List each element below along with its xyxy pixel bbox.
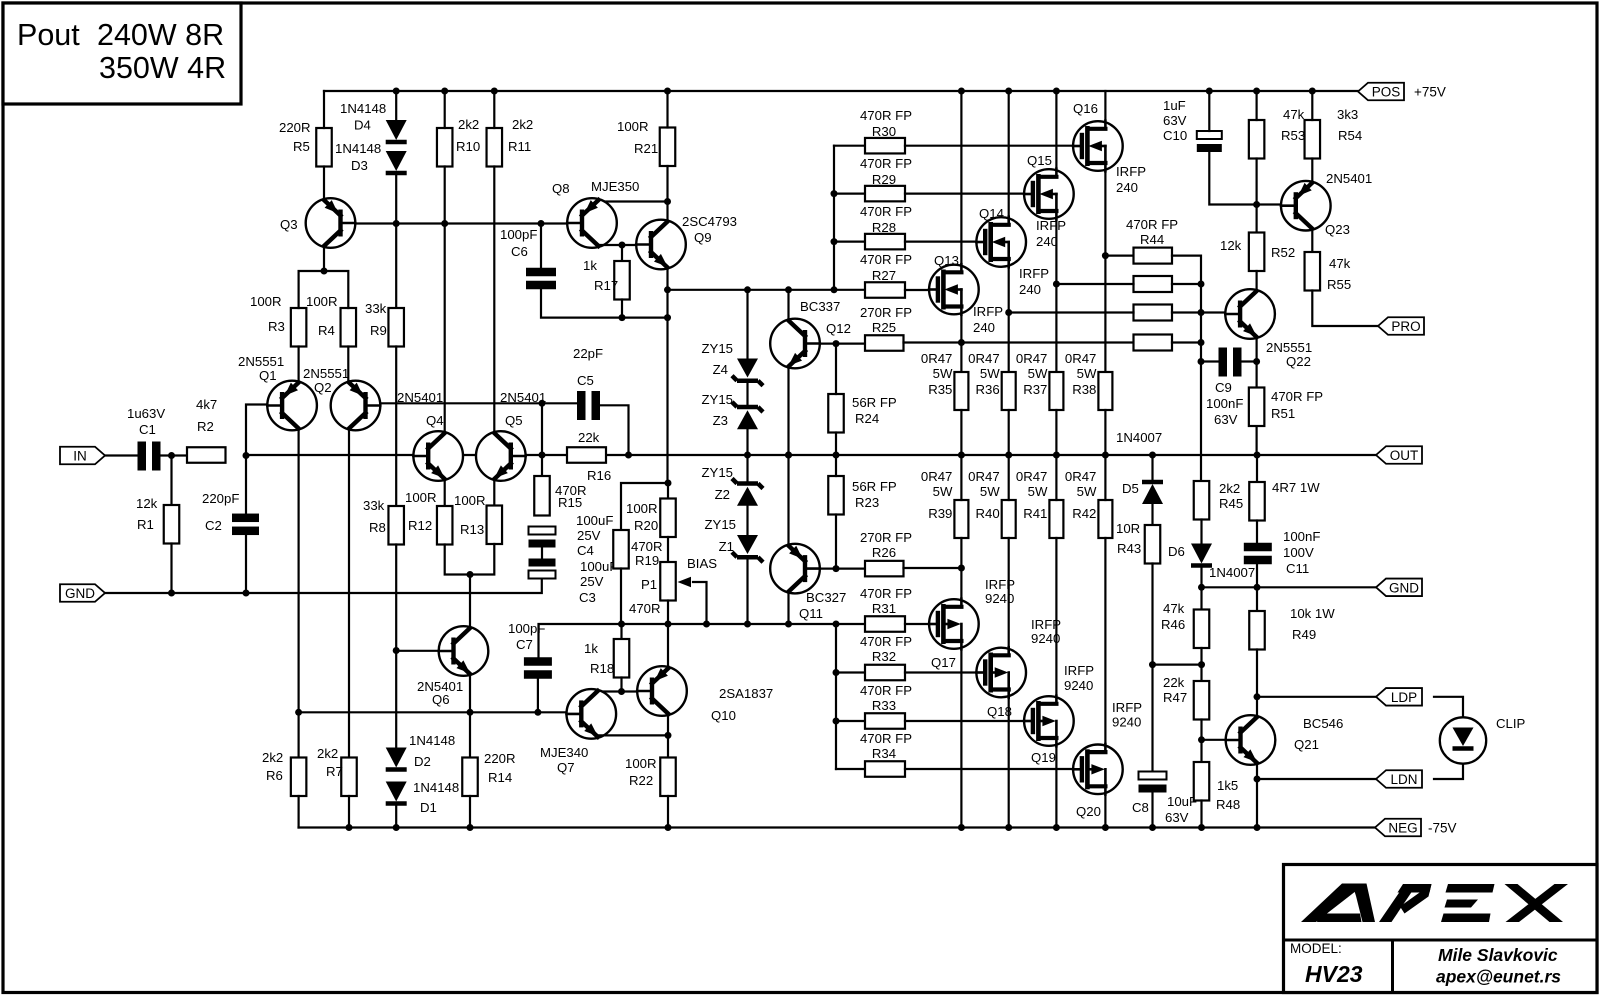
svg-text:HV23: HV23	[1305, 961, 1363, 987]
wire R21 top	[666, 91, 668, 128]
wire R38 bottom to OUT rail	[1104, 410, 1106, 455]
diode D3 1N4148	[386, 151, 407, 171]
wire R23 bottom to Q11 base	[835, 515, 837, 569]
transistor Q16 IRFP240	[1073, 121, 1123, 171]
svg-text:33k: 33k	[365, 301, 387, 316]
wire R50 to C11	[1256, 521, 1258, 545]
wire R33 to Q19 gate	[905, 720, 1027, 722]
node Q15drain-rail junction	[1053, 88, 1060, 95]
wire R29 left lead	[834, 193, 865, 195]
wire R21 to Q9 collector node	[666, 166, 668, 220]
svg-text:5W: 5W	[980, 366, 1000, 381]
wire R43 bottom to node	[1151, 564, 1153, 665]
svg-text:Q7: Q7	[557, 760, 575, 775]
node Q6base-chain junction	[393, 647, 400, 654]
node R2 output junction	[243, 452, 250, 459]
svg-text:PRO: PRO	[1391, 319, 1420, 334]
svg-text:63V: 63V	[1214, 412, 1238, 427]
svg-text:R40: R40	[975, 506, 999, 521]
resistor R28 470R FP	[865, 234, 905, 250]
svg-text:C11: C11	[1286, 561, 1309, 576]
svg-text:R6: R6	[266, 768, 283, 783]
svg-text:D2: D2	[414, 754, 431, 769]
wire Q19 drain down	[1055, 746, 1057, 828]
wire Q14 source down	[1008, 267, 1010, 373]
svg-text:R13: R13	[460, 522, 484, 537]
wire R31-R34 common vertical	[835, 624, 837, 769]
wire Q21 emitter down	[1256, 764, 1258, 828]
svg-text:47k: 47k	[1283, 107, 1305, 122]
svg-text:0R47: 0R47	[968, 351, 1000, 366]
transistor Q23 2N5401	[1281, 181, 1331, 231]
svg-text:ZY15: ZY15	[704, 517, 736, 532]
wire Q3 base to diode chain and Q8 base	[356, 222, 444, 224]
wire chain to R9	[395, 224, 397, 309]
wire R35 bottom to OUT rail	[960, 410, 962, 455]
node Q20-rail junction	[1102, 824, 1109, 831]
node R53-C10 junction	[1253, 201, 1260, 208]
node Q11base junction	[833, 565, 840, 572]
node Q6-emitter junction	[467, 709, 474, 716]
wire R22 bottom	[667, 796, 669, 828]
svg-text:R49: R49	[1292, 627, 1316, 642]
resistor R30 470R FP	[865, 138, 905, 154]
svg-text:100R: 100R	[617, 119, 649, 134]
svg-text:IN: IN	[73, 449, 87, 464]
svg-text:GND: GND	[65, 586, 95, 601]
resistor R32 470R FP	[865, 665, 905, 681]
wire LDP	[1257, 696, 1376, 698]
svg-text:Q23: Q23	[1325, 222, 1350, 237]
wire R54 top	[1311, 91, 1313, 120]
node C7 junction	[534, 709, 541, 716]
svg-text:1k5: 1k5	[1217, 778, 1238, 793]
svg-text:Q1: Q1	[259, 368, 277, 383]
node R44c junction	[1198, 309, 1205, 316]
wire R11 top	[493, 91, 495, 128]
wire R49 top	[1256, 587, 1258, 611]
svg-text:D6: D6	[1168, 544, 1185, 559]
resistor R40 0R47 5W	[1002, 500, 1016, 538]
node C8-rail junction	[1149, 824, 1156, 831]
node R31 junction	[833, 621, 840, 628]
svg-text:100pF: 100pF	[500, 227, 537, 242]
svg-text:C3: C3	[579, 590, 596, 605]
svg-text:0R47: 0R47	[1016, 351, 1048, 366]
svg-text:350W 4R: 350W 4R	[99, 51, 226, 85]
wire Q8 emitter wire	[599, 200, 668, 202]
svg-text:Q22: Q22	[1286, 354, 1311, 369]
node R1-GND junction	[168, 590, 175, 597]
svg-text:MODEL:: MODEL:	[1290, 941, 1342, 956]
svg-text:Q12: Q12	[826, 321, 851, 336]
wire P1 bottom to BIAS	[667, 601, 669, 625]
wire Q21 base wire	[1202, 739, 1226, 741]
svg-text:Q15: Q15	[1027, 153, 1052, 168]
wire Q20 drain down	[1104, 794, 1106, 828]
svg-text:C6: C6	[511, 244, 528, 259]
node R54-rail junction	[1309, 88, 1316, 95]
wire R46 top	[1200, 587, 1202, 609]
transistor Q18 IRFP9240	[976, 648, 1026, 698]
wire CLIP to LDN	[1434, 764, 1463, 779]
transistor Q9 2SC4793	[636, 220, 686, 270]
P1 wiper arrow	[678, 577, 692, 587]
svg-text:2k2: 2k2	[1219, 481, 1240, 496]
wire R48 bottom	[1200, 801, 1202, 828]
svg-text:Q2: Q2	[314, 380, 332, 395]
wire GND right rail	[1202, 586, 1377, 588]
resistor R16 22k	[567, 447, 606, 463]
svg-text:470R FP: 470R FP	[860, 634, 912, 649]
svg-text:Q5: Q5	[505, 413, 523, 428]
svg-text:BC337: BC337	[800, 299, 840, 314]
svg-text:IRFP: IRFP	[1064, 663, 1094, 678]
svg-text:3k3: 3k3	[1337, 107, 1358, 122]
node Q17-rail junction	[958, 824, 965, 831]
resistor R44a 470R FP	[1134, 248, 1173, 264]
svg-text:R48: R48	[1216, 797, 1240, 812]
svg-text:Pout: Pout	[17, 18, 80, 52]
wire OUT mid rail	[246, 454, 1376, 456]
resistor R23	[828, 476, 844, 515]
PRO connector	[1378, 317, 1424, 335]
wire Q15 drain	[1055, 91, 1057, 170]
resistor R24	[828, 394, 844, 433]
svg-text:9240: 9240	[985, 591, 1014, 606]
wire Z4-Z3 link	[746, 382, 748, 407]
wire Q7 emitter wire	[599, 734, 668, 736]
IN connector	[60, 447, 105, 465]
resistor R33 470R FP	[865, 713, 905, 729]
svg-text:2N5401: 2N5401	[397, 390, 443, 405]
wire Q2 emitter down to R7	[348, 430, 350, 758]
svg-text:Q19: Q19	[1031, 750, 1056, 765]
svg-text:22k: 22k	[1163, 675, 1185, 690]
svg-text:270R FP: 270R FP	[860, 530, 912, 545]
svg-text:R46: R46	[1161, 617, 1185, 632]
wire R29 to Q15 gate	[905, 193, 1027, 195]
resistor R19 470R	[613, 530, 629, 569]
svg-text:100nF: 100nF	[1206, 396, 1243, 411]
node Q10em-BIAS junction	[665, 621, 672, 628]
node Q12 top junction	[785, 286, 792, 293]
node Q18-rail junction	[1005, 824, 1012, 831]
node R33 junction	[833, 718, 840, 725]
svg-text:63V: 63V	[1165, 810, 1189, 825]
svg-text:240: 240	[973, 320, 995, 335]
wire R24 top	[835, 344, 837, 394]
svg-text:Z1: Z1	[719, 539, 734, 554]
node LDN junction	[1254, 776, 1261, 783]
svg-text:100uF: 100uF	[580, 559, 617, 574]
wire Q9 node to R19 top	[621, 483, 668, 530]
resistor R10	[437, 128, 453, 167]
node R46-R47 junction	[1198, 661, 1205, 668]
wire Q13 source down	[960, 314, 962, 372]
wire C4 C3 join	[541, 548, 543, 559]
wire R7 bottom	[348, 796, 350, 828]
resistor R18 1k	[614, 639, 630, 678]
wire R52 to Q22 collector	[1255, 271, 1257, 290]
wire R34 left lead	[836, 768, 865, 770]
svg-text:5W: 5W	[1077, 484, 1097, 499]
svg-text:R35: R35	[928, 382, 952, 397]
resistor R42 0R47 5W	[1098, 500, 1112, 538]
svg-text:R51: R51	[1271, 406, 1295, 421]
svg-text:240: 240	[1036, 234, 1058, 249]
svg-text:240W 8R: 240W 8R	[97, 18, 224, 52]
resistor R51 470R FP	[1249, 388, 1265, 427]
svg-text:47k: 47k	[1329, 256, 1351, 271]
wire C1 to R2	[161, 454, 188, 456]
resistor R54 3k3	[1305, 120, 1321, 159]
APEX logo letter P	[1379, 884, 1417, 922]
svg-text:5W: 5W	[1077, 366, 1097, 381]
node R18top-BIAS junction	[618, 621, 625, 628]
wire R53 bottom	[1255, 159, 1257, 205]
svg-text:470R FP: 470R FP	[860, 252, 912, 267]
svg-text:R37: R37	[1023, 382, 1047, 397]
resistor R31 470R FP	[865, 616, 905, 632]
svg-text:ZY15: ZY15	[701, 465, 733, 480]
wire R44b right	[1172, 283, 1201, 285]
resistor R13	[487, 506, 503, 545]
transistor Q13 IRFP240	[929, 265, 979, 315]
resistor R46 47k	[1194, 610, 1210, 649]
wire R11 to Q5 collector	[493, 167, 495, 433]
svg-text:470R FP: 470R FP	[1126, 217, 1178, 232]
wire C10 bottom to R53 node	[1209, 152, 1280, 205]
wire Z1 to BIAS wire	[746, 560, 748, 624]
wire C10 top	[1208, 91, 1210, 131]
wire Q16 source down	[1104, 171, 1106, 373]
wire D6 to GND wire	[1200, 566, 1202, 587]
resistor R27 470R FP	[865, 282, 905, 298]
wire Q17 drain down	[960, 649, 962, 828]
resistor R17	[614, 261, 630, 300]
transistor Q19 IRFP9240	[1024, 696, 1074, 746]
svg-text:R9: R9	[370, 323, 387, 338]
node D6-GNDwire junction	[1198, 584, 1205, 591]
node C11-GNDwire junction	[1254, 584, 1261, 591]
node R11-rail junction	[491, 88, 498, 95]
wire P1 wiper return	[693, 582, 707, 624]
wire R3 to Q1 collector	[298, 347, 300, 384]
wire C9 right lead	[1242, 360, 1257, 362]
wire R45 to D6	[1200, 520, 1202, 544]
wire R18 top lead	[620, 624, 622, 639]
wire D1 to -75V rail	[395, 805, 397, 828]
svg-text:270R FP: 270R FP	[860, 305, 912, 320]
wire Q3 collector lead	[323, 248, 325, 272]
svg-text:25V: 25V	[580, 574, 604, 589]
resistor R45 2k2	[1194, 481, 1210, 520]
wire R47 bottom to Q21 base	[1200, 720, 1202, 763]
resistor R37 0R47 5W	[1049, 372, 1063, 410]
svg-text:25V: 25V	[577, 528, 601, 543]
diode D4 1N4148	[386, 120, 407, 140]
wire R44a right	[1172, 256, 1201, 284]
resistor R53 47k	[1249, 120, 1265, 159]
svg-text:10uF: 10uF	[1167, 794, 1197, 809]
node C10-rail junction	[1206, 88, 1213, 95]
svg-text:1N4148: 1N4148	[409, 733, 455, 748]
transistor Q21 BC546	[1226, 715, 1276, 765]
wire Q11 emitter to OUT rail	[787, 455, 789, 545]
svg-text:470R FP: 470R FP	[860, 108, 912, 123]
node R24-rail junction	[833, 452, 840, 459]
wire R14 bottom	[469, 796, 471, 828]
svg-text:R16: R16	[587, 468, 611, 483]
wire R1 lead	[170, 456, 172, 506]
wire R28 left lead	[834, 241, 865, 243]
node Q3base-chain junction	[393, 220, 400, 227]
wire Q10 collector down	[667, 715, 669, 758]
svg-text:D4: D4	[354, 118, 371, 133]
svg-text:5W: 5W	[1028, 484, 1048, 499]
wire R20 R19 P1 column top	[667, 483, 669, 499]
node Z4 top junction	[744, 286, 751, 293]
svg-text:D5: D5	[1122, 481, 1139, 496]
capacitor C3 100uF	[529, 559, 556, 567]
svg-text:BC327: BC327	[806, 590, 846, 605]
transistor Q20 IRFP9240	[1073, 745, 1123, 795]
svg-text:BC546: BC546	[1303, 716, 1343, 731]
svg-text:Q6: Q6	[432, 692, 450, 707]
svg-text:2k2: 2k2	[317, 746, 338, 761]
svg-text:470R FP: 470R FP	[1271, 389, 1323, 404]
wire R44b left	[1056, 283, 1133, 285]
wire Z2 top lead	[746, 455, 748, 484]
GND connector right	[1376, 579, 1422, 597]
resistor R5	[316, 128, 332, 167]
node Q21emitter-rail junction	[1254, 824, 1261, 831]
svg-text:1N4148: 1N4148	[340, 101, 386, 116]
wire C6 top to Q8 base node	[540, 224, 542, 269]
svg-text:470R: 470R	[629, 601, 661, 616]
wire C2 lead upper	[245, 456, 247, 514]
wire R30 left lead	[834, 145, 865, 147]
svg-text:2N5551: 2N5551	[303, 366, 349, 381]
svg-text:R8: R8	[369, 520, 386, 535]
svg-text:240: 240	[1116, 180, 1138, 195]
wire Q15 source down	[1055, 219, 1057, 373]
resistor R49 10k 1W	[1249, 611, 1265, 650]
node R29 junction	[831, 190, 838, 197]
wire Z3 to OUT rail	[746, 430, 748, 456]
node R32 junction	[833, 669, 840, 676]
svg-text:C5: C5	[577, 373, 594, 388]
node R35-rail junction	[958, 452, 965, 459]
svg-text:5W: 5W	[1028, 366, 1048, 381]
node R38-rail junction	[1102, 452, 1109, 459]
svg-text:Q4: Q4	[426, 413, 444, 428]
svg-text:Z2: Z2	[715, 487, 730, 502]
diode D5 1N4007	[1142, 484, 1163, 504]
svg-text:1N4007: 1N4007	[1209, 565, 1255, 580]
svg-text:1k: 1k	[584, 641, 598, 656]
svg-text:56R FP: 56R FP	[852, 479, 897, 494]
svg-text:GND: GND	[1389, 580, 1419, 595]
wire Q1 emitter down	[298, 430, 300, 758]
svg-text:Q16: Q16	[1073, 101, 1098, 116]
POS connector	[1358, 83, 1404, 101]
wire R27 to Q13 gate	[905, 289, 929, 291]
wire R10 to Q4 collector	[444, 167, 446, 433]
GND connector left	[60, 584, 105, 602]
transistor Q4 2N5401	[413, 431, 463, 481]
svg-text:R43: R43	[1117, 541, 1141, 556]
node C1-R1 junction	[168, 452, 175, 459]
resistor R7	[341, 758, 357, 797]
wire R15 top lead	[541, 455, 543, 476]
transistor Q5 2N5401	[476, 431, 526, 481]
wire R44d right	[1172, 341, 1201, 343]
node R36-rail junction	[1005, 452, 1012, 459]
svg-text:5W: 5W	[933, 484, 953, 499]
svg-text:1u63V: 1u63V	[127, 406, 165, 421]
node Z3-rail junction	[744, 452, 751, 459]
svg-text:R1: R1	[137, 517, 154, 532]
svg-text:R23: R23	[855, 495, 879, 510]
resistor R12	[437, 506, 453, 545]
resistor R21	[660, 128, 676, 167]
wire R33 left lead	[836, 720, 865, 722]
node Q8base-C6 junction	[538, 220, 545, 227]
svg-text:R25: R25	[872, 320, 896, 335]
svg-text:C2: C2	[205, 518, 222, 533]
wire R28R29R30 common vertical	[833, 146, 835, 290]
svg-text:R36: R36	[975, 382, 999, 397]
title box Pout	[3, 3, 241, 104]
svg-text:R15: R15	[558, 495, 582, 510]
svg-text:2N5551: 2N5551	[1266, 340, 1312, 355]
svg-text:R7: R7	[326, 764, 343, 779]
zener Z1 ZY15	[737, 535, 758, 554]
svg-text:MJE340: MJE340	[540, 745, 588, 760]
svg-text:47k: 47k	[1163, 601, 1185, 616]
svg-text:220R: 220R	[279, 120, 311, 135]
node R48-rail junction	[1198, 824, 1205, 831]
resistor R55 47k	[1305, 252, 1321, 291]
svg-text:1uF: 1uF	[1163, 98, 1186, 113]
svg-text:P1: P1	[641, 577, 657, 592]
wire R44 common down to C9 node	[1200, 284, 1202, 362]
wire R54 to Q23 collector	[1311, 159, 1313, 183]
resistor R6	[291, 758, 307, 797]
wire R37 bottom to OUT rail	[1055, 410, 1057, 455]
resistor R38 0R47 5W	[1098, 372, 1112, 410]
wire Q11 base to R26	[820, 567, 865, 569]
logo box	[1284, 865, 1598, 993]
wire R36 bottom to OUT rail	[1008, 410, 1010, 455]
svg-text:R24: R24	[855, 411, 879, 426]
node Q9-y290 junction	[664, 286, 671, 293]
resistor R48 1k5	[1194, 762, 1210, 801]
resistor R41 0R47 5W	[1049, 500, 1063, 538]
svg-text:C7: C7	[516, 637, 533, 652]
node C5-R15 rail junction	[539, 452, 546, 459]
node Q14drain-rail junction	[1005, 88, 1012, 95]
svg-text:0R47: 0R47	[921, 351, 953, 366]
wire R25 to R44 bank wire	[904, 341, 1134, 343]
diode D6 1N4007	[1191, 544, 1212, 564]
node Q12base junction	[833, 340, 840, 347]
svg-text:5W: 5W	[980, 484, 1000, 499]
wire R4 to Q2 collector	[347, 347, 349, 384]
wire Q9 emitter down chain	[666, 269, 668, 484]
